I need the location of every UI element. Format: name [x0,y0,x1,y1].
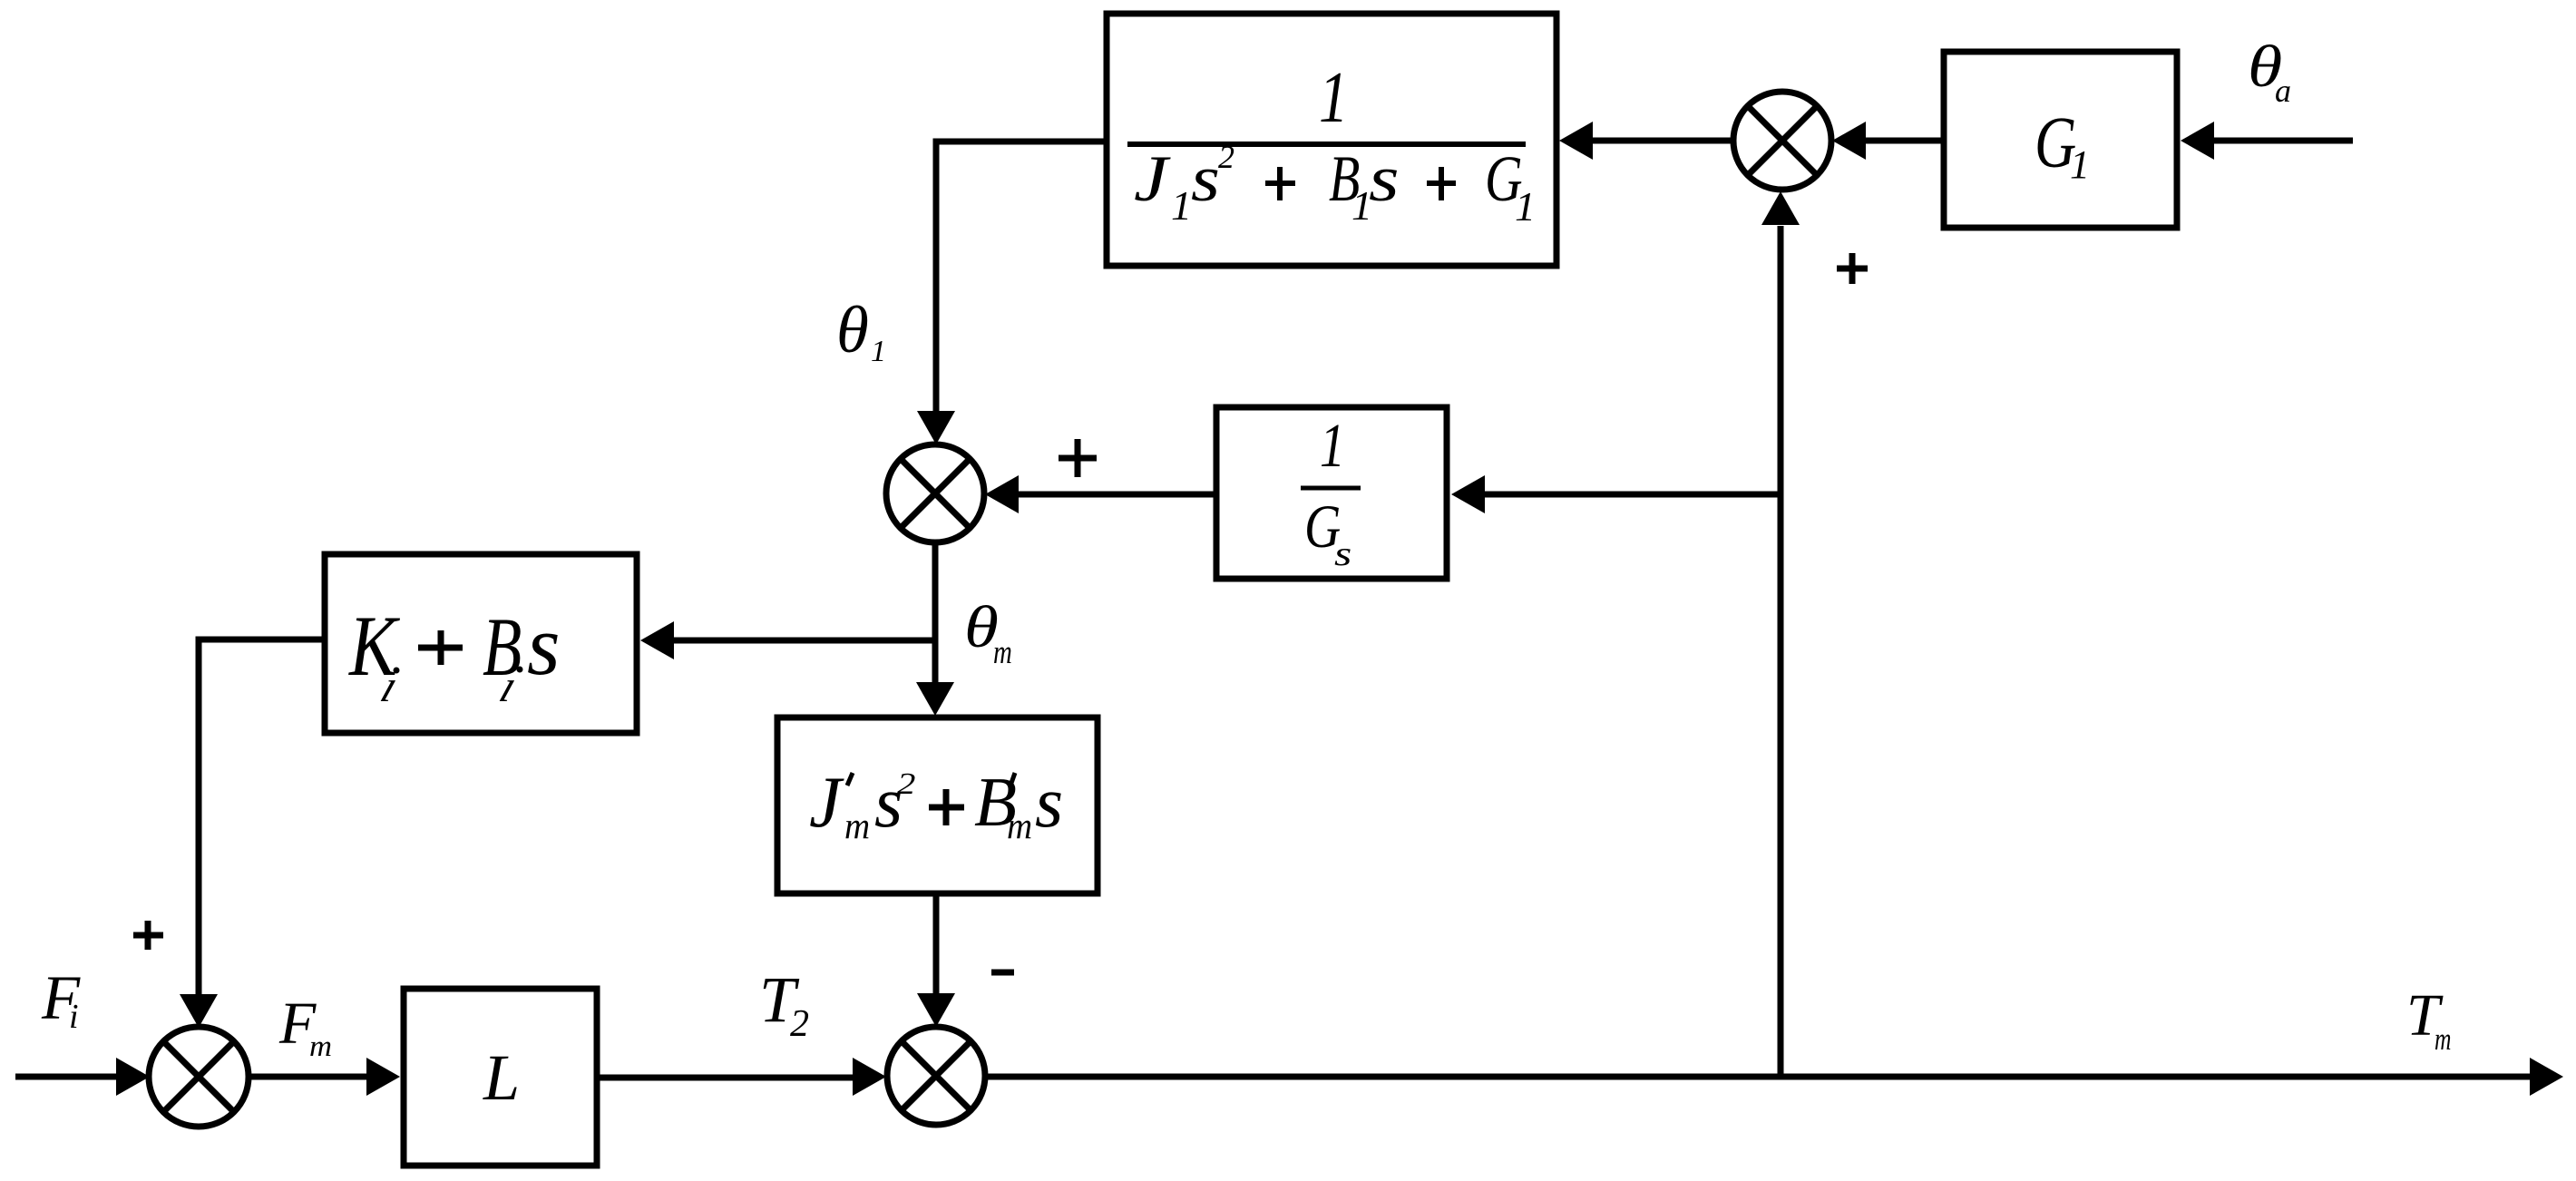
svg-text:1: 1 [2070,142,2090,187]
block L [404,989,597,1166]
svg-text:s: s [1334,534,1351,572]
arrowhead into M3 top [180,994,218,1028]
wire theta_a input [2213,138,2353,144]
wire J block down to M4 [933,893,940,993]
svg-text:i: i [69,998,79,1036]
wire L to M4 [597,1075,853,1081]
svg-text:1: 1 [1319,56,1348,137]
wire M1 to U1 [1592,138,1733,144]
arrowhead output Tm [2530,1058,2563,1096]
wire vertical feedback line up to M1 [1778,226,1784,1077]
svg-text:J: J [1134,142,1171,215]
svg-text:L: L [483,1041,520,1114]
arrowhead into L left [366,1058,400,1096]
svg-text:2: 2 [897,767,915,801]
wire F_i input [15,1074,116,1080]
block Jm's^2+Bm's [777,717,1098,893]
svg-text:m: m [2435,1021,2451,1057]
wire theta_m branch left to Ki block [674,638,935,644]
arrowhead into M4 left [853,1058,886,1096]
svg-text:1: 1 [1171,182,1192,229]
arrowhead into M1 bottom [1761,191,1800,225]
arrowhead into G1 [2181,122,2214,160]
wire U1 output corner down to M2 [936,142,1107,411]
block G1 [1944,52,2177,228]
label theta_a [2248,33,2291,109]
svg-text:a: a [2275,73,2291,109]
wire branch from vertical line to 1/Gs [1485,492,1781,498]
wire 1/Gs to M2 [1019,492,1216,498]
minus sign at M4 [991,970,1014,976]
summing junction M1 (top right) [1733,92,1831,190]
arrowhead into U1 right [1559,122,1593,160]
label F_m [278,991,332,1063]
arrowhead into M1 right [1832,122,1866,160]
summing junction M4 (bottom middle) [887,1027,985,1125]
wire Ki output corner down to M3 [199,639,325,994]
svg-text:2: 2 [790,1003,809,1045]
label theta_m [964,593,1012,671]
svg-text:2: 2 [1218,139,1234,175]
label F_i [41,963,81,1036]
svg-text:θ: θ [836,293,869,366]
svg-text:m: m [309,1030,332,1063]
block 1/Gs [1216,407,1447,579]
svg-text:1: 1 [1515,183,1536,229]
wire G1 to M1 [1865,138,1944,144]
svg-text:s: s [1035,763,1063,843]
svg-text:s: s [527,599,561,693]
svg-text:1: 1 [871,335,886,368]
plus sign at M3 [133,921,163,950]
wire M2 down to J block with theta_m junction [932,542,939,682]
block Ki+Bis [325,554,637,733]
summing junction M3 (bottom left) [149,1027,249,1127]
label T_2 [759,963,809,1045]
block U1: 1/(J1s^2+B1s+G1) [1107,14,1556,266]
svg-text:m: m [1007,805,1032,846]
label T_m [2406,982,2451,1057]
summing junction M2 (middle) [886,444,984,542]
svg-text:s: s [1191,142,1220,215]
svg-text:1: 1 [1320,410,1345,480]
plus sign at M2 [1059,439,1097,477]
wire M4 output to Tm with junction to vertical feedback line [985,1074,2530,1080]
arrowhead into M3 left [116,1058,150,1096]
svg-text:s: s [1369,143,1400,216]
svg-text:m: m [993,634,1012,671]
arrowhead into M4 top [917,993,955,1027]
svg-text:J: J [809,763,844,843]
plus sign at M1 [1837,253,1868,284]
arrowhead into J block top [916,682,954,716]
wire M3 to L [249,1074,366,1080]
svg-text:m: m [844,805,870,846]
arrowhead into Ki block right [640,621,674,659]
arrowhead into M2 right [985,475,1019,513]
arrowhead into 1/Gs right [1451,475,1485,513]
arrowhead into M2 top [917,411,955,444]
label theta_1 [836,293,886,368]
